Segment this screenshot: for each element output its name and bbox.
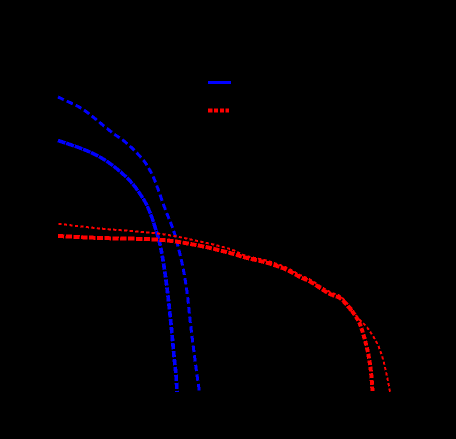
- curve red thick dashed (series 3) shallow part: [58, 236, 352, 311]
- legend sample red dashed: [208, 109, 229, 113]
- legend sample blue solid: [208, 81, 231, 84]
- curve blue dashed (series 2): [58, 97, 200, 392]
- curve blue solid (series 1) shallow part: [58, 141, 159, 241]
- curve blue solid (series 1) steep tail: [159, 240, 177, 392]
- curve red thin dotted (series 4): [59, 224, 391, 392]
- curve red thick dashed (series 3) steep tail: [352, 311, 373, 391]
